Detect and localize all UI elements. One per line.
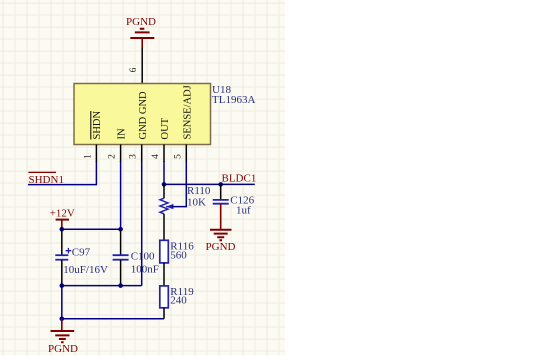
- pin 4: [151, 145, 164, 163]
- wire OUT to BLDC1: [164, 183, 255, 185]
- svg-text:SENSE/ADJ: SENSE/ADJ: [182, 85, 193, 139]
- wire pin1 to SHDN1: [28, 161, 96, 185]
- potentiometer R110: [160, 184, 211, 240]
- regulator U18 TL1963A body: [74, 84, 255, 145]
- net label SHDN1: [28, 172, 64, 185]
- resistor R119: [160, 286, 194, 308]
- junction at C97 top: [60, 227, 65, 232]
- pin 3: [129, 145, 142, 163]
- svg-text:TL1963A: TL1963A: [212, 94, 255, 106]
- junction mid rail C100: [118, 283, 123, 288]
- svg-text:2: 2: [108, 154, 118, 159]
- sheet background: [0, 0, 285, 356]
- svg-text:SHDN: SHDN: [92, 110, 103, 139]
- junction at IN rail: [118, 227, 123, 232]
- svg-text:C97: C97: [72, 246, 91, 258]
- junction bottom rail: [60, 317, 65, 322]
- capacitor C100: [113, 229, 159, 285]
- power port PGND top: [126, 16, 156, 48]
- pin 6 of U18: [129, 48, 142, 84]
- svg-text:PGND: PGND: [48, 343, 78, 355]
- wire left ground column: [61, 286, 63, 319]
- wire +12V rail: [62, 228, 121, 230]
- svg-text:GND GND: GND GND: [138, 91, 149, 140]
- svg-text:OUT: OUT: [160, 117, 171, 139]
- svg-text:IN: IN: [116, 128, 127, 139]
- svg-text:SHDN1: SHDN1: [29, 174, 64, 186]
- svg-text:4: 4: [151, 154, 161, 159]
- svg-text:1: 1: [83, 154, 93, 159]
- capacitor C126: [213, 184, 255, 216]
- wire pin5 to wiper: [172, 161, 186, 207]
- svg-text:560: 560: [170, 249, 187, 261]
- svg-text:6: 6: [129, 67, 139, 72]
- svg-text:5: 5: [173, 154, 183, 159]
- junction OUT node: [162, 182, 167, 187]
- wire mid ground rail: [62, 285, 142, 287]
- svg-text:PGND: PGND: [126, 16, 156, 28]
- svg-text:3: 3: [129, 154, 139, 159]
- resistor R116: [160, 240, 194, 263]
- pin 1: [83, 145, 96, 163]
- wire pin3 to mid rail: [141, 161, 143, 286]
- junction C126 tap: [218, 182, 223, 187]
- wire bottom rail: [62, 318, 164, 320]
- wire pin4 to OUT node: [163, 161, 165, 184]
- capacitor C97: [55, 229, 108, 285]
- svg-text:10uF/16V: 10uF/16V: [63, 264, 108, 276]
- svg-text:240: 240: [170, 295, 187, 307]
- power port +12V: [50, 208, 75, 230]
- svg-text:BLDC1: BLDC1: [222, 172, 257, 184]
- pin 5: [173, 145, 186, 163]
- svg-text:+12V: +12V: [50, 208, 75, 220]
- pin name SHDN (with overbar): [91, 110, 103, 139]
- wire R119 to bottom rail: [163, 308, 165, 319]
- pin 2: [108, 145, 121, 163]
- wire pin2 to rail: [120, 161, 122, 229]
- svg-text:PGND: PGND: [206, 241, 236, 253]
- junction mid rail left: [60, 283, 65, 288]
- svg-text:R110: R110: [187, 185, 211, 197]
- svg-text:1uf: 1uf: [236, 204, 251, 216]
- wire R116 to R119: [163, 263, 165, 286]
- svg-text:10K: 10K: [187, 197, 206, 209]
- power port PGND at C126: [206, 204, 236, 253]
- power port PGND bottom: [48, 319, 78, 355]
- svg-text:C100: C100: [131, 251, 155, 263]
- svg-text:100nF: 100nF: [131, 263, 159, 275]
